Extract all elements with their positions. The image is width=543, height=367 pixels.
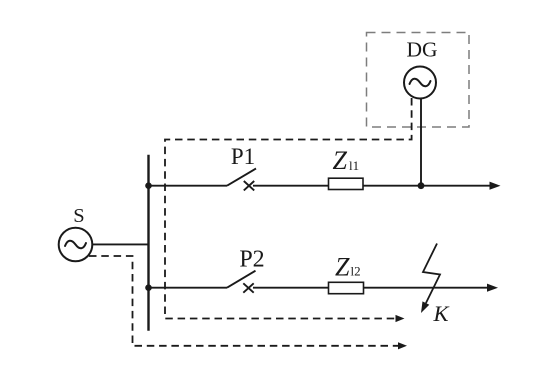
svg-text:l2: l2 xyxy=(351,264,361,279)
svg-text:Z: Z xyxy=(335,252,350,281)
svg-text:K: K xyxy=(433,301,450,326)
svg-text:DG: DG xyxy=(406,38,437,62)
svg-text:S: S xyxy=(73,205,84,227)
svg-text:l1: l1 xyxy=(349,158,359,173)
svg-text:P2: P2 xyxy=(239,246,264,272)
svg-text:P1: P1 xyxy=(231,144,255,169)
svg-text:Z: Z xyxy=(333,146,348,175)
